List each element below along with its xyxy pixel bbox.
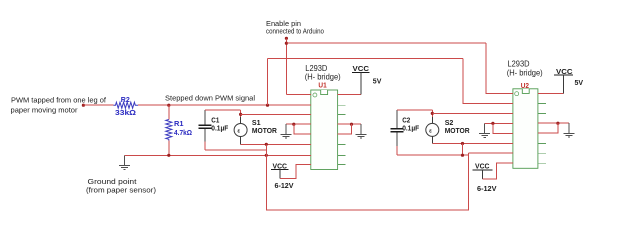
resistor R1: [166, 105, 192, 155]
wire U2 pin13 gnd row: [538, 122, 569, 124]
svg-text:ε: ε: [429, 129, 432, 135]
svg-text:VCC: VCC: [475, 162, 490, 171]
svg-text:MOTOR: MOTOR: [445, 126, 471, 135]
node enable rail junction: [285, 42, 288, 45]
wire U1 pin16 to VCC: [338, 94, 361, 96]
wire VCC to U1 pin8: [280, 164, 311, 178]
wire C2 bottom row: [397, 154, 469, 156]
motor S2: [426, 117, 470, 144]
wire PWM rail up branch: [267, 58, 269, 105]
wire U2 pin16 to VCC: [538, 92, 564, 94]
power VCC 5V (U1): [352, 64, 381, 94]
svg-text:33kΩ: 33kΩ: [115, 108, 136, 117]
wire bottom loop: [266, 144, 468, 210]
motor S1: [234, 117, 277, 144]
wire ground row: [125, 154, 311, 156]
svg-text:6-12V: 6-12V: [275, 181, 294, 190]
svg-text:(from paper sensor): (from paper sensor): [86, 186, 156, 195]
wire U1 pin4 gnd row: [286, 123, 311, 125]
resistor R2: [114, 95, 139, 117]
node U1 right gnd junction: [350, 123, 353, 126]
ground (paper sensor ground point): [119, 155, 130, 169]
capacitor C1: [198, 110, 228, 142]
pin stubs U2 left: [505, 93, 513, 163]
ground U1 left: [281, 124, 292, 138]
wire U2 pin13-pin12 bracket: [538, 123, 558, 133]
ground U1 right: [356, 124, 367, 138]
wire C1 top line: [205, 109, 241, 111]
svg-text:L293D: L293D: [305, 64, 327, 73]
wire enable vertical to U1 pin1: [285, 38, 287, 94]
svg-text:0.1µF: 0.1µF: [402, 124, 419, 133]
svg-text:4.7kΩ: 4.7kΩ: [174, 128, 192, 137]
wire enable rail down to U2 pin1: [486, 43, 513, 93]
node R1 bottom junction: [167, 154, 170, 157]
wire U2 pin3 row: [432, 112, 513, 114]
wire C1 bottom row: [205, 149, 266, 151]
svg-text:R2: R2: [121, 95, 130, 104]
svg-text:(H- bridge): (H- bridge): [507, 68, 543, 77]
wire U2 pin7 row: [468, 152, 513, 154]
node C2 row junction: [461, 154, 464, 157]
wire U1 pin4-pin5 bracket: [294, 124, 311, 134]
svg-text:U1: U1: [318, 81, 326, 90]
svg-text:VCC: VCC: [353, 64, 370, 73]
wire U1 pin13 gnd row: [338, 123, 361, 125]
wire motor S2 top vertical: [431, 110, 433, 117]
svg-text:Stepped down PWM signal: Stepped down PWM signal: [165, 94, 255, 103]
svg-text:L293D: L293D: [508, 60, 530, 69]
svg-text:paper moving motor: paper moving motor: [11, 106, 78, 115]
svg-text:R1: R1: [174, 119, 184, 128]
svg-text:ε: ε: [237, 129, 240, 135]
wire C2 top line: [397, 109, 433, 111]
node PWM input terminal: [82, 104, 85, 107]
wire U2 pin6 row: [432, 143, 513, 145]
wire PWM rail down to U2 pin2: [463, 58, 513, 103]
note: PWM tapped text: [11, 96, 107, 115]
node S2 bottom junction: [461, 142, 464, 145]
wire U1 pin3 row: [241, 113, 311, 115]
wire PWM row to U1 pin2: [138, 104, 311, 106]
wire U1 pin1 row: [286, 94, 310, 96]
node U1 left gnd junction: [292, 123, 295, 126]
node R1 top junction: [167, 104, 170, 107]
wire U2 pin4 gnd row: [485, 122, 513, 124]
wire C1 bottom lead to row: [204, 142, 206, 150]
node U2 right gnd junction: [556, 122, 559, 125]
IC U1 L293D (H-bridge) with labels: [303, 64, 346, 170]
power VCC 5V (U2): [554, 67, 583, 94]
node motor S2 top tee: [431, 112, 434, 115]
svg-text:5V: 5V: [373, 76, 382, 85]
wire U1 pin6 row: [241, 143, 311, 145]
node rail branch junction: [266, 104, 269, 107]
svg-text:connected to Arduino: connected to Arduino: [266, 27, 324, 36]
wire C2 bottom lead: [396, 146, 398, 155]
note: Ground point (from paper sensor): [86, 177, 156, 195]
capacitor C2: [390, 110, 419, 146]
power VCC 6-12V (U2): [473, 162, 497, 193]
pin stubs U2 right: [538, 93, 546, 163]
wire S2 bottom to C2 row: [462, 144, 464, 156]
pin stubs U1 left: [303, 95, 311, 165]
wire U1 pin13-pin12 bracket: [338, 124, 352, 134]
node enable terminal: [285, 37, 288, 40]
svg-text:PWM tapped from one leg of: PWM tapped from one leg of: [11, 96, 107, 105]
node motor top tee: [239, 113, 242, 116]
IC U2 L293D (H-bridge) with labels: [505, 60, 546, 169]
wire PWM row left: [83, 104, 113, 106]
svg-text:MOTOR: MOTOR: [252, 126, 278, 135]
node ground row loop junction: [265, 154, 268, 157]
wire VCC to U2 pin8: [482, 163, 513, 179]
power VCC 6-12V (U1): [271, 161, 294, 190]
node U2 left gnd junction: [491, 122, 494, 125]
ground U2 right: [564, 123, 575, 137]
node motor bottom junction: [265, 143, 268, 146]
note: Enable pin connected to Arduino: [266, 19, 324, 36]
wire motor S1 top vertical: [240, 110, 242, 117]
svg-text:5V: 5V: [575, 78, 584, 87]
svg-text:0.1µF: 0.1µF: [211, 124, 228, 133]
svg-text:6-12V: 6-12V: [477, 184, 497, 193]
ground U2 left: [479, 123, 490, 137]
wire enable rail horizontal: [286, 42, 486, 44]
pin stubs U1 right: [338, 95, 346, 165]
wire U2 pin4-pin5 bracket: [493, 123, 513, 133]
wire PWM rail horizontal: [268, 57, 464, 59]
